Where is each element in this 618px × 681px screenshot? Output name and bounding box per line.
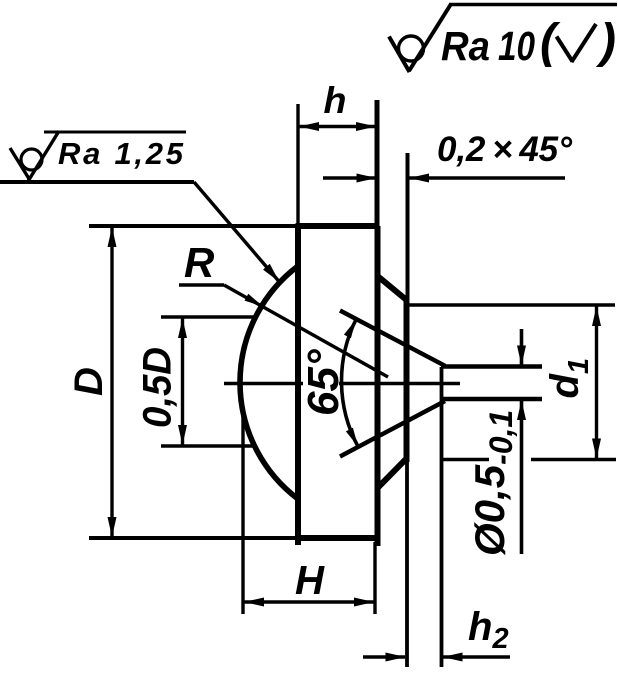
svg-text:D: D [67,367,111,396]
svg-text:h2: h2 [468,605,509,655]
svg-text:Ø0,5-0,1: Ø0,5-0,1 [466,410,519,556]
svg-text:h: h [324,80,347,121]
svg-text:0,5D: 0,5D [136,347,180,428]
svg-text:d1: d1 [543,358,595,399]
svg-text:65°: 65° [299,349,348,416]
svg-text:10: 10 [498,23,535,69]
svg-text:Ra 1,25: Ra 1,25 [58,136,184,171]
svg-text:H: H [295,557,325,603]
svg-text:R: R [184,239,215,286]
svg-text:): ) [595,15,616,68]
svg-text:Ra: Ra [441,23,490,69]
svg-text:0,2 × 45°: 0,2 × 45° [437,130,573,169]
